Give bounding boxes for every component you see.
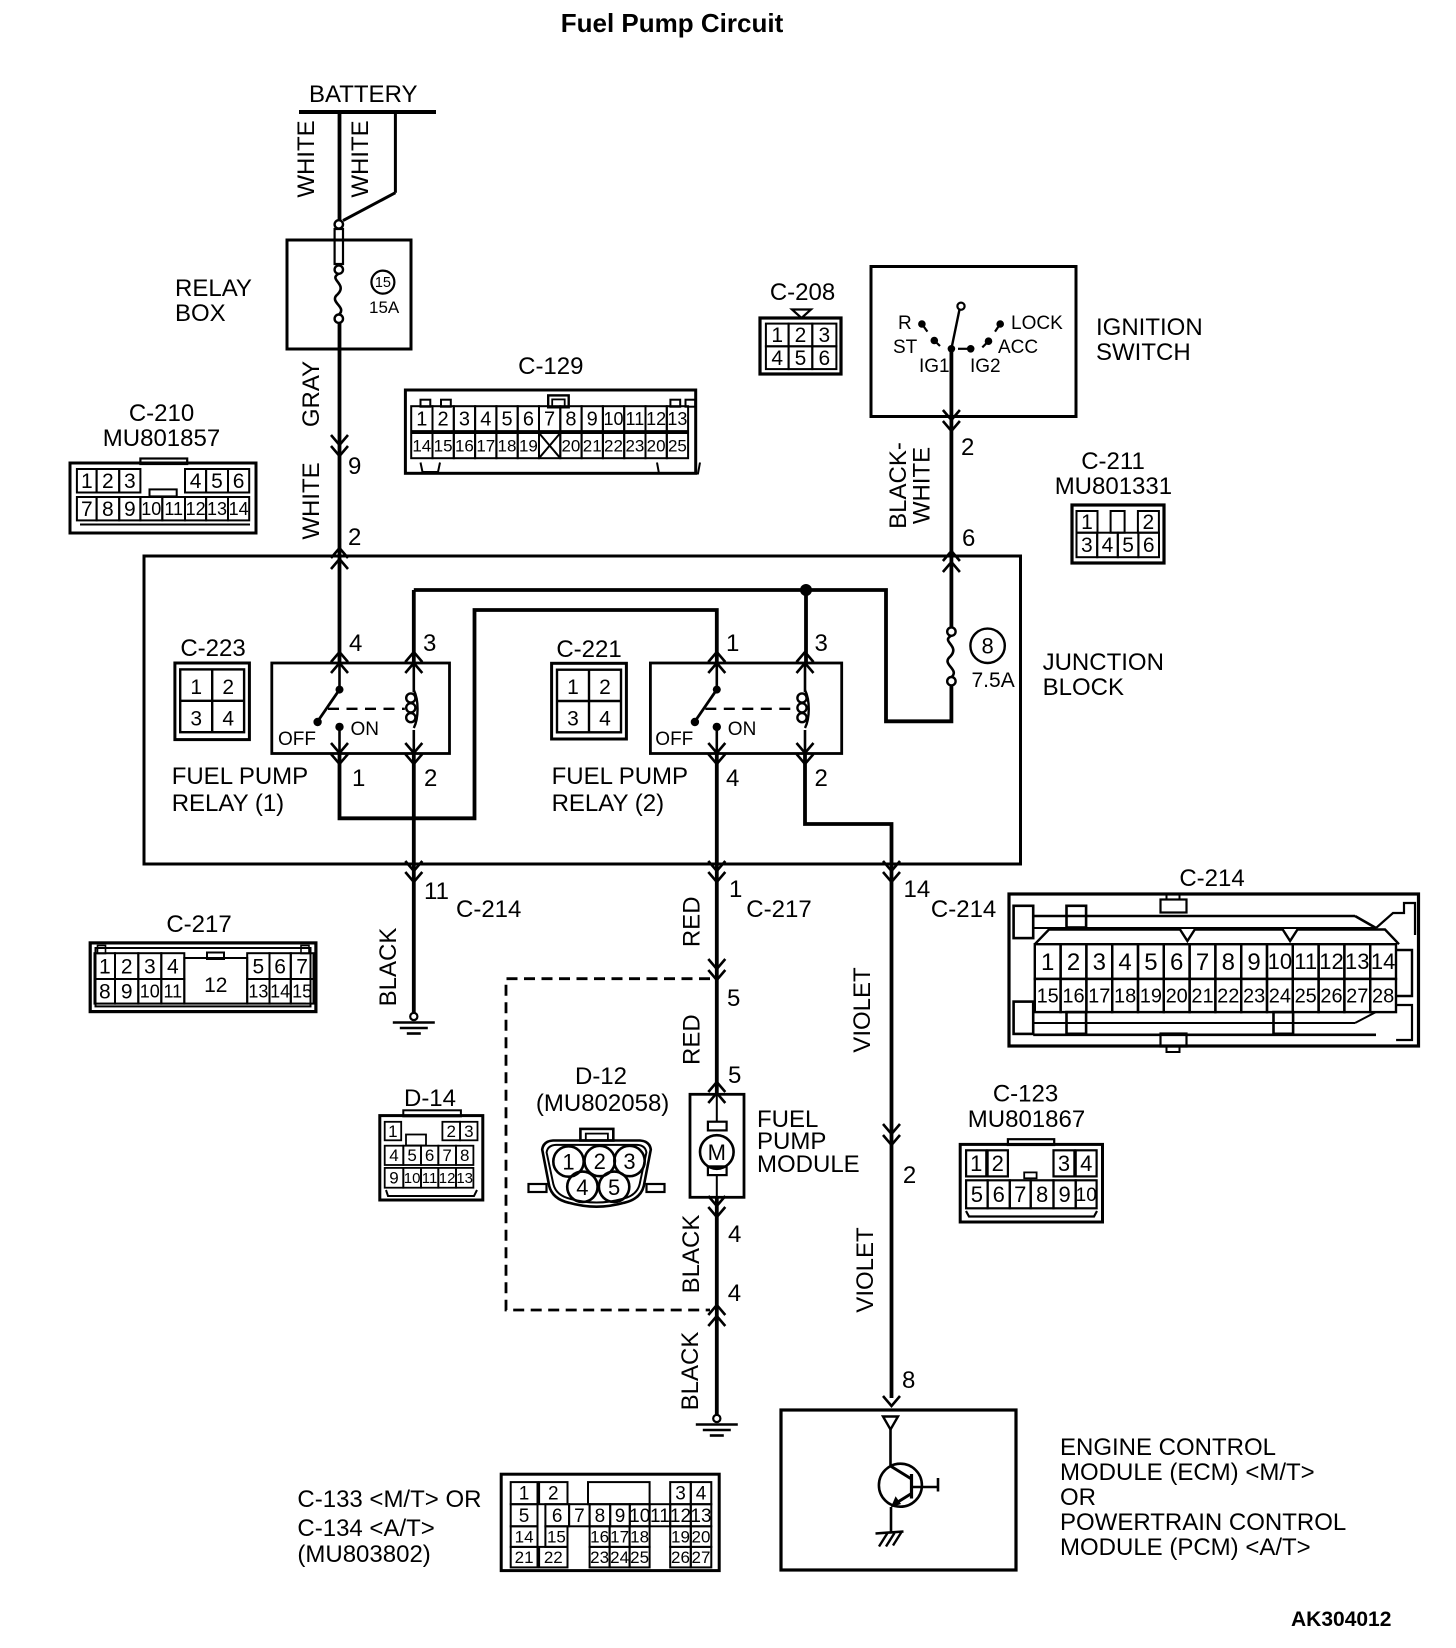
- svg-text:6: 6: [962, 525, 975, 552]
- connector C-129: [405, 353, 700, 474]
- fuse number (15) circled: [371, 271, 394, 294]
- svg-text:7: 7: [81, 498, 93, 521]
- svg-text:25: 25: [630, 1548, 649, 1567]
- svg-text:2: 2: [446, 1122, 455, 1141]
- wire VIOLET junction block to ECM: [890, 864, 894, 1398]
- svg-text:6: 6: [425, 1146, 434, 1165]
- svg-text:7.5A: 7.5A: [972, 669, 1015, 692]
- label WHITE (to junction block): [298, 462, 325, 539]
- svg-text:15: 15: [434, 437, 453, 456]
- label R: [898, 313, 912, 334]
- svg-text:RELAY: RELAY: [175, 275, 252, 302]
- relay1 coil: [406, 663, 417, 752]
- svg-text:4: 4: [599, 708, 611, 731]
- svg-text:2: 2: [594, 1149, 606, 1174]
- svg-text:BOX: BOX: [175, 300, 226, 327]
- svg-text:4: 4: [480, 409, 491, 431]
- label 15A: [369, 298, 400, 317]
- svg-text:23: 23: [625, 437, 644, 456]
- label C-217 (middle exit): [746, 896, 811, 923]
- svg-text:3: 3: [459, 409, 470, 431]
- svg-text:17: 17: [476, 437, 495, 456]
- svg-text:4: 4: [1102, 534, 1114, 557]
- svg-text:2: 2: [1143, 511, 1155, 534]
- relay2 pin 1: [726, 630, 739, 657]
- connector C-208: [760, 279, 841, 374]
- svg-text:19: 19: [1140, 985, 1162, 1007]
- svg-text:9: 9: [1058, 1182, 1070, 1207]
- svg-text:C-208: C-208: [770, 279, 835, 306]
- svg-text:15: 15: [292, 982, 312, 1002]
- relay2 switch: [691, 663, 721, 752]
- svg-text:14: 14: [904, 876, 931, 903]
- svg-text:7: 7: [1014, 1182, 1026, 1207]
- pin 11: [424, 878, 449, 905]
- relay1 pin 4 arrows: [331, 652, 348, 673]
- exit arrows pin 11: [405, 861, 422, 882]
- svg-text:2: 2: [1067, 949, 1080, 976]
- svg-text:5: 5: [795, 347, 807, 370]
- label C-214 (left exit): [456, 896, 521, 923]
- ground (left): [393, 1013, 435, 1034]
- svg-text:1: 1: [190, 676, 202, 699]
- label VIOLET (lower): [852, 1227, 879, 1313]
- relay1 pin 4: [349, 630, 362, 657]
- pin 2 (ignition): [961, 434, 974, 461]
- relay1 pin 1: [352, 765, 365, 792]
- svg-text:1: 1: [1081, 511, 1093, 534]
- svg-text:6: 6: [818, 347, 830, 370]
- svg-text:8: 8: [1222, 949, 1235, 976]
- label C-214 (right exit): [931, 896, 996, 923]
- svg-text:IG1: IG1: [919, 356, 950, 377]
- svg-text:8: 8: [565, 409, 576, 431]
- svg-text:11: 11: [163, 982, 182, 1002]
- connector D-14: [380, 1085, 483, 1200]
- junction block entry arrows (left): [331, 548, 348, 569]
- wire ignition switch IG1 to junction block: [950, 352, 954, 628]
- svg-text:12: 12: [204, 974, 227, 997]
- svg-text:MU801857: MU801857: [103, 425, 220, 452]
- svg-text:14: 14: [229, 499, 249, 519]
- junction block entry arrows (ignition): [943, 551, 960, 572]
- svg-text:C-210: C-210: [129, 400, 194, 427]
- svg-text:D-14: D-14: [404, 1085, 456, 1112]
- relay2 pin 1 arrows: [708, 652, 725, 673]
- svg-text:2: 2: [961, 434, 974, 461]
- svg-text:6: 6: [552, 1506, 563, 1527]
- svg-text:IGNITION: IGNITION: [1096, 314, 1203, 341]
- svg-text:16: 16: [590, 1528, 609, 1547]
- wire node to relay2 coil: [804, 590, 808, 664]
- ground (bottom): [696, 1415, 738, 1436]
- transistor Q (ECM driver): [879, 1430, 938, 1533]
- svg-text:22: 22: [544, 1548, 563, 1567]
- fuse 15A symbol: [335, 265, 343, 323]
- ECM entry arrow: [883, 1396, 900, 1406]
- svg-text:17: 17: [610, 1528, 629, 1547]
- wire BLACK to ground: [412, 864, 416, 1013]
- connector C-211 MU801331: [1055, 448, 1172, 563]
- svg-text:2: 2: [121, 955, 133, 978]
- svg-text:C-214: C-214: [456, 896, 521, 923]
- svg-text:21: 21: [583, 437, 602, 456]
- svg-text:ON: ON: [728, 719, 757, 740]
- wire relay2 switch out to exit 1: [715, 752, 719, 864]
- relay2 pin 3: [815, 630, 828, 657]
- label BLACK (left): [375, 928, 402, 1007]
- harness exit arrows: [708, 1305, 725, 1326]
- fuel pump motor M: [700, 1094, 734, 1197]
- svg-text:1: 1: [416, 409, 427, 431]
- label ACC: [998, 337, 1038, 358]
- svg-text:MU801867: MU801867: [968, 1106, 1085, 1133]
- connector crossing C-129 arrows: [331, 435, 348, 456]
- svg-text:10: 10: [1268, 949, 1292, 974]
- svg-text:4: 4: [1080, 1151, 1092, 1176]
- svg-text:BLOCK: BLOCK: [1043, 674, 1124, 701]
- svg-text:20: 20: [561, 437, 580, 456]
- svg-text:7: 7: [544, 409, 555, 431]
- wire relay1 coil to ground exit 11: [412, 752, 416, 864]
- svg-text:5: 5: [1144, 949, 1157, 976]
- svg-text:RED: RED: [678, 896, 705, 947]
- ECM input terminal triangle: [883, 1417, 898, 1430]
- connector C-214: [1009, 865, 1419, 1052]
- fuel pump relay (2) box: [650, 663, 841, 754]
- connector C-210 MU801857: [70, 400, 256, 533]
- label BLACK (bottom): [677, 1332, 704, 1411]
- wire battery right WHITE: [343, 112, 395, 221]
- svg-text:24: 24: [610, 1548, 629, 1567]
- svg-text:3: 3: [1058, 1151, 1070, 1176]
- fuse number (8) circled: [970, 629, 1004, 663]
- svg-text:23: 23: [590, 1548, 609, 1567]
- svg-text:C-214: C-214: [931, 896, 996, 923]
- relay1 link dashes: [328, 708, 405, 710]
- svg-text:9: 9: [121, 981, 133, 1004]
- svg-text:JUNCTION: JUNCTION: [1043, 649, 1164, 676]
- svg-text:4: 4: [190, 470, 202, 493]
- label WHITE (right battery wire): [347, 120, 374, 197]
- svg-text:28: 28: [1372, 985, 1394, 1007]
- svg-text:C-217: C-217: [746, 896, 811, 923]
- svg-text:Fuel Pump Circuit: Fuel Pump Circuit: [561, 8, 784, 38]
- relay1 pin 2 arrows: [405, 743, 422, 764]
- svg-text:4: 4: [349, 630, 362, 657]
- svg-text:LOCK: LOCK: [1011, 313, 1063, 334]
- svg-text:10: 10: [629, 1506, 650, 1527]
- relay1 pin 3 arrows: [405, 652, 422, 673]
- svg-text:3: 3: [1093, 949, 1106, 976]
- svg-text:11: 11: [1294, 949, 1317, 974]
- svg-text:6: 6: [993, 1182, 1005, 1207]
- svg-text:8: 8: [1036, 1182, 1048, 1207]
- svg-text:8: 8: [595, 1506, 606, 1527]
- svg-text:OFF: OFF: [655, 729, 693, 750]
- svg-text:24: 24: [1269, 985, 1291, 1007]
- svg-text:5: 5: [727, 985, 740, 1012]
- svg-text:14: 14: [412, 437, 431, 456]
- wire relay1 switch out to relay2 switch in: [340, 610, 717, 818]
- svg-text:3: 3: [815, 630, 828, 657]
- svg-text:12: 12: [646, 409, 666, 429]
- svg-text:D-12: D-12: [575, 1063, 627, 1090]
- svg-text:5: 5: [501, 409, 512, 431]
- label ENGINE CONTROL MODULE: [1060, 1434, 1346, 1561]
- svg-text:C-214: C-214: [1179, 865, 1244, 892]
- svg-text:10: 10: [140, 982, 160, 1002]
- svg-text:8: 8: [981, 634, 993, 659]
- svg-text:1: 1: [729, 876, 742, 903]
- pin 9: [348, 453, 361, 480]
- relay2 pin 4: [726, 765, 739, 792]
- svg-text:12: 12: [670, 1506, 691, 1527]
- relay1 switch: [313, 663, 343, 752]
- svg-text:3: 3: [818, 324, 830, 347]
- exit arrows pin 14: [883, 861, 900, 882]
- svg-text:11: 11: [650, 1506, 670, 1527]
- svg-text:OFF: OFF: [278, 729, 316, 750]
- relay1 pin 2: [424, 765, 437, 792]
- svg-text:26: 26: [1320, 985, 1342, 1007]
- pin 6: [962, 525, 975, 552]
- svg-text:5: 5: [608, 1175, 620, 1200]
- svg-text:21: 21: [1191, 985, 1213, 1007]
- svg-text:1: 1: [352, 765, 365, 792]
- label OFF (relay2): [655, 729, 693, 750]
- svg-text:3: 3: [124, 470, 136, 493]
- svg-text:1: 1: [771, 324, 783, 347]
- svg-text:2: 2: [548, 1484, 559, 1505]
- svg-text:3: 3: [423, 630, 436, 657]
- relay2 pin 4 arrows: [708, 743, 725, 764]
- svg-text:13: 13: [456, 1170, 473, 1187]
- svg-text:9: 9: [348, 453, 361, 480]
- pin 5 (module): [728, 1062, 741, 1089]
- wire BLACK module to ground: [715, 1197, 719, 1415]
- label RED (upper): [678, 896, 705, 947]
- module harness crossing arrows (5): [708, 959, 725, 980]
- svg-text:2: 2: [992, 1151, 1004, 1176]
- svg-text:8: 8: [460, 1146, 469, 1165]
- svg-text:RED: RED: [678, 1014, 705, 1065]
- svg-text:4: 4: [728, 1280, 741, 1307]
- svg-text:3: 3: [464, 1122, 473, 1141]
- svg-text:7: 7: [296, 955, 308, 978]
- svg-text:15: 15: [547, 1528, 566, 1547]
- svg-text:6: 6: [233, 470, 245, 493]
- svg-text:M: M: [708, 1140, 726, 1165]
- svg-text:C-223: C-223: [180, 635, 245, 662]
- svg-text:(MU803802): (MU803802): [297, 1541, 430, 1568]
- svg-text:20: 20: [647, 437, 666, 456]
- svg-text:6: 6: [274, 955, 286, 978]
- relay2 pin 2 arrows: [797, 743, 814, 764]
- pin 2: [348, 524, 361, 551]
- chassis ground (ECM): [876, 1532, 904, 1547]
- relay2 pin 3 arrows: [797, 652, 814, 673]
- svg-text:1: 1: [99, 955, 111, 978]
- svg-text:BATTERY: BATTERY: [309, 81, 417, 108]
- svg-text:11: 11: [422, 1170, 438, 1187]
- relay1 pin 1 arrows: [331, 743, 348, 764]
- pin 4 (module): [728, 1221, 741, 1248]
- label C-133 / C-134: [297, 1486, 481, 1568]
- svg-text:C-221: C-221: [556, 636, 621, 663]
- connector C-133/C-134 (MU803802): [501, 1474, 719, 1570]
- wire relay1 coil drop: [412, 590, 416, 664]
- label RELAY BOX: [175, 275, 252, 327]
- svg-text:13: 13: [690, 1506, 711, 1527]
- svg-text:C-133 <M/T> OR: C-133 <M/T> OR: [297, 1486, 481, 1513]
- fusible link connector (capsule): [335, 220, 343, 264]
- svg-text:4: 4: [726, 765, 739, 792]
- svg-text:11: 11: [164, 499, 183, 519]
- svg-text:1: 1: [726, 630, 739, 657]
- pin 1 (C-217): [729, 876, 742, 903]
- relay2 coil: [797, 663, 808, 752]
- svg-text:5: 5: [253, 955, 265, 978]
- svg-text:16: 16: [1062, 985, 1084, 1007]
- figure number AK304012: [1291, 1608, 1391, 1631]
- svg-text:AK304012: AK304012: [1291, 1608, 1391, 1631]
- svg-text:4: 4: [167, 955, 179, 978]
- label FUEL PUMP RELAY (2): [552, 763, 688, 817]
- svg-text:8: 8: [102, 498, 114, 521]
- svg-text:16: 16: [455, 437, 474, 456]
- svg-text:2: 2: [903, 1162, 916, 1189]
- svg-text:21: 21: [515, 1548, 534, 1567]
- svg-text:6: 6: [1170, 949, 1183, 976]
- svg-text:MODULE (ECM) <M/T>: MODULE (ECM) <M/T>: [1060, 1459, 1315, 1486]
- pin 14: [904, 876, 931, 903]
- svg-text:18: 18: [630, 1528, 649, 1547]
- label RED (lower): [678, 1014, 705, 1065]
- svg-text:(MU802058): (MU802058): [536, 1090, 669, 1117]
- svg-text:3: 3: [144, 955, 156, 978]
- pin 5 (upper): [727, 985, 740, 1012]
- svg-text:R: R: [898, 313, 912, 334]
- connector C-223: [175, 635, 250, 740]
- svg-text:10: 10: [141, 499, 161, 519]
- svg-text:5: 5: [971, 1182, 983, 1207]
- svg-text:2: 2: [795, 324, 807, 347]
- svg-text:1: 1: [562, 1150, 574, 1175]
- svg-text:6: 6: [523, 409, 534, 431]
- fuse 7.5A symbol: [947, 627, 955, 685]
- svg-text:14: 14: [515, 1528, 534, 1547]
- svg-text:12: 12: [439, 1170, 456, 1187]
- label WHITE (left battery wire): [293, 120, 320, 197]
- svg-text:VIOLET: VIOLET: [852, 1227, 879, 1313]
- svg-text:9: 9: [615, 1506, 626, 1527]
- label FUEL PUMP RELAY (1): [172, 763, 308, 817]
- svg-text:1: 1: [519, 1484, 530, 1505]
- svg-text:2: 2: [424, 765, 437, 792]
- svg-text:RELAY (2): RELAY (2): [552, 790, 665, 817]
- svg-text:4: 4: [771, 347, 783, 370]
- label OFF (relay1): [278, 729, 316, 750]
- label BLACK (module): [678, 1215, 705, 1294]
- svg-text:WHITE: WHITE: [298, 462, 325, 539]
- svg-text:1: 1: [567, 676, 579, 699]
- wire relay2 coil to exit 14: [805, 752, 892, 864]
- svg-text:WHITE: WHITE: [293, 120, 320, 197]
- svg-text:8: 8: [99, 981, 111, 1004]
- label 7.5A: [972, 669, 1015, 692]
- svg-text:5: 5: [519, 1506, 530, 1527]
- svg-text:4: 4: [222, 708, 234, 731]
- svg-text:7: 7: [442, 1146, 451, 1165]
- svg-text:FUEL PUMP: FUEL PUMP: [172, 763, 308, 790]
- svg-text:6: 6: [1143, 534, 1155, 557]
- violet crossing arrows (2): [883, 1124, 900, 1145]
- svg-text:9: 9: [389, 1169, 398, 1188]
- label IG1: [919, 356, 950, 377]
- svg-text:19: 19: [671, 1528, 690, 1547]
- wire relay box to junction block: [338, 322, 342, 664]
- label ST: [893, 337, 918, 358]
- svg-text:10: 10: [1076, 1185, 1097, 1206]
- svg-text:ON: ON: [351, 719, 380, 740]
- svg-text:VIOLET: VIOLET: [849, 967, 876, 1053]
- connector C-123 MU801867: [960, 1081, 1102, 1223]
- ignition switch box: [871, 267, 1076, 417]
- svg-text:20: 20: [692, 1528, 711, 1547]
- svg-text:14: 14: [1371, 949, 1395, 974]
- svg-text:1: 1: [970, 1151, 982, 1176]
- svg-text:1: 1: [81, 470, 93, 493]
- svg-text:13: 13: [207, 499, 227, 519]
- ignition switch rotary symbol: [918, 303, 1004, 353]
- wire fuse output to relay coils: [414, 590, 952, 721]
- svg-text:9: 9: [587, 409, 598, 431]
- svg-text:MU801331: MU801331: [1055, 473, 1172, 500]
- wire RED junction block to module: [715, 864, 719, 1094]
- svg-text:FUEL PUMP: FUEL PUMP: [552, 763, 688, 790]
- svg-text:5: 5: [728, 1062, 741, 1089]
- svg-text:5: 5: [1122, 534, 1134, 557]
- svg-text:5: 5: [407, 1146, 416, 1165]
- label IGNITION SWITCH: [1096, 314, 1203, 366]
- svg-text:IG2: IG2: [970, 356, 1001, 377]
- svg-text:4: 4: [1118, 949, 1131, 976]
- svg-text:7: 7: [574, 1506, 585, 1527]
- module entry arrows: [708, 1082, 725, 1103]
- ignition exit arrows: [943, 410, 960, 431]
- connector C-217: [90, 911, 316, 1012]
- svg-text:2: 2: [599, 676, 611, 699]
- battery BATTERY bus: [299, 81, 436, 112]
- svg-text:2: 2: [348, 524, 361, 551]
- junction block: [144, 556, 1021, 864]
- svg-text:27: 27: [1346, 985, 1368, 1007]
- svg-text:POWERTRAIN CONTROL: POWERTRAIN CONTROL: [1060, 1509, 1346, 1536]
- svg-text:OR: OR: [1060, 1484, 1096, 1511]
- svg-text:3: 3: [1081, 534, 1093, 557]
- svg-text:2: 2: [222, 676, 234, 699]
- svg-text:C-211: C-211: [1081, 448, 1145, 475]
- svg-text:SWITCH: SWITCH: [1096, 339, 1191, 366]
- svg-text:4: 4: [576, 1175, 588, 1200]
- svg-text:7: 7: [1196, 949, 1209, 976]
- svg-text:5: 5: [211, 470, 223, 493]
- svg-text:2: 2: [815, 765, 828, 792]
- svg-text:13: 13: [248, 982, 268, 1002]
- svg-text:RELAY (1): RELAY (1): [172, 790, 285, 817]
- svg-text:4: 4: [728, 1221, 741, 1248]
